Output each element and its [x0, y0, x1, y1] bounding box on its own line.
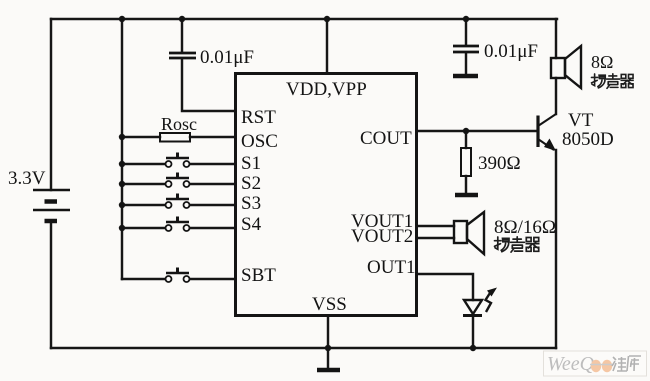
wire S3 right — [190, 204, 234, 206]
wire S2 right — [190, 183, 234, 185]
node bus S2 junction — [119, 181, 125, 187]
wire top rail — [51, 18, 557, 20]
wire S3 left — [122, 204, 165, 206]
speaker SP1 cone — [565, 46, 581, 88]
svg-text:8Ω: 8Ω — [591, 52, 613, 72]
node bus S1 junction — [119, 161, 125, 167]
wire bottom rail — [51, 347, 556, 349]
wire VOUT1 — [418, 225, 454, 227]
svg-text:Rosc: Rosc — [161, 114, 197, 134]
node VSS rail junction — [325, 345, 331, 351]
speaker SP2 cone — [467, 212, 484, 254]
node bus S3 junction — [119, 202, 125, 208]
ku — [627, 356, 641, 371]
wire emitter down to rail — [555, 150, 557, 348]
label speaker CJK top — [591, 74, 633, 89]
resistor R1 390 ohm — [461, 148, 471, 176]
wire SBT right — [190, 278, 234, 280]
svg-text:OSC: OSC — [241, 131, 278, 152]
transistor Q1 base bar — [536, 116, 539, 148]
label speaker CJK bottom — [495, 237, 540, 252]
wire S4 left — [122, 227, 165, 229]
switch S2 — [166, 173, 190, 188]
svg-text:OUT1: OUT1 — [367, 257, 416, 278]
wire VOUT2 — [418, 237, 454, 239]
wire switch bus — [121, 19, 123, 279]
wire C1 top branch — [181, 19, 183, 52]
ground under R1 — [455, 193, 478, 198]
svg-text:VT: VT — [568, 110, 594, 131]
transistor Q1 collector — [538, 114, 556, 126]
svg-text:S3: S3 — [241, 193, 261, 214]
capacitor C1 0.01uF — [169, 53, 196, 58]
wire VSS pin to rail — [327, 317, 329, 348]
wire OUT1 to LED — [418, 274, 473, 300]
node top VDD junction — [324, 16, 330, 22]
svg-text:VSS: VSS — [312, 294, 347, 315]
resistor Rosc — [160, 133, 190, 142]
speaker SP1 box — [551, 58, 565, 78]
wire SBT left — [122, 278, 165, 280]
LED D1 light arrow — [486, 293, 492, 312]
switch S3 — [166, 194, 190, 209]
svg-text:WeeQ: WeeQ — [547, 353, 595, 375]
svg-text:VOUT2: VOUT2 — [351, 226, 413, 247]
svg-text:S2: S2 — [241, 173, 261, 194]
svg-text:3.3V: 3.3V — [8, 168, 46, 189]
switch S4 — [166, 217, 190, 232]
node LED rail junction — [470, 345, 476, 351]
wire VSS ground stem — [327, 348, 329, 369]
svg-text:390Ω: 390Ω — [478, 153, 521, 174]
svg-text:8050D: 8050D — [562, 129, 614, 150]
op IC U1 body — [236, 74, 417, 316]
wire speaker1 to collector — [555, 78, 557, 114]
svg-text:0.01μF: 0.01μF — [484, 41, 538, 62]
transistor Q1 emitter arrow — [544, 139, 556, 152]
node bus OSC junction — [119, 134, 125, 140]
wire S4 right — [190, 227, 234, 229]
wire battery bottom to rail — [50, 223, 52, 348]
wire 390 to ground — [465, 176, 467, 193]
svg-text:VDD,VPP: VDD,VPP — [286, 79, 367, 100]
svg-text:0.01μF: 0.01μF — [200, 47, 254, 68]
svg-text:S4: S4 — [241, 214, 262, 235]
wire C1 to RST pin — [182, 59, 234, 111]
wire C2 branch — [465, 19, 467, 45]
switch S1 — [166, 153, 190, 168]
node bus S4 junction — [119, 225, 125, 231]
wei — [612, 357, 627, 371]
svg-text:8Ω/16Ω: 8Ω/16Ω — [494, 217, 556, 238]
battery B1 3.3V — [33, 190, 70, 221]
node top bus junction — [119, 16, 125, 22]
wire speaker1 top — [555, 19, 557, 58]
svg-text:S1: S1 — [241, 153, 261, 174]
wire bus to Rosc — [122, 136, 160, 138]
wire S1 right — [190, 163, 234, 165]
transistor Q1 emitter — [538, 139, 554, 150]
wire S2 left — [122, 183, 165, 185]
switch SBT — [166, 268, 190, 283]
node top C2 junction — [463, 16, 469, 22]
svg-text:COUT: COUT — [360, 128, 412, 149]
watermark box — [544, 351, 647, 376]
wire left battery drop — [50, 19, 52, 190]
wire S1 left — [122, 163, 165, 165]
node COUT R1 junction — [463, 128, 469, 134]
ground under C2 — [453, 74, 478, 79]
wire LED to rail — [472, 316, 474, 348]
ground under VSS — [317, 368, 340, 373]
node top C1 junction — [179, 16, 185, 22]
svg-text:RST: RST — [241, 107, 276, 128]
capacitor C2 0.01uF — [453, 46, 479, 52]
svg-text:SBT: SBT — [241, 265, 276, 286]
wire C2 to ground — [465, 53, 467, 74]
wire 390 top — [465, 131, 467, 148]
wire VDD,VPP pin — [326, 19, 328, 72]
LED D1 triangle — [464, 300, 482, 314]
LED D1 cathode bar — [463, 314, 482, 317]
speaker SP2 box — [454, 221, 467, 243]
wire COUT to base — [418, 130, 537, 132]
wire Rosc to OSC pin — [190, 136, 234, 138]
